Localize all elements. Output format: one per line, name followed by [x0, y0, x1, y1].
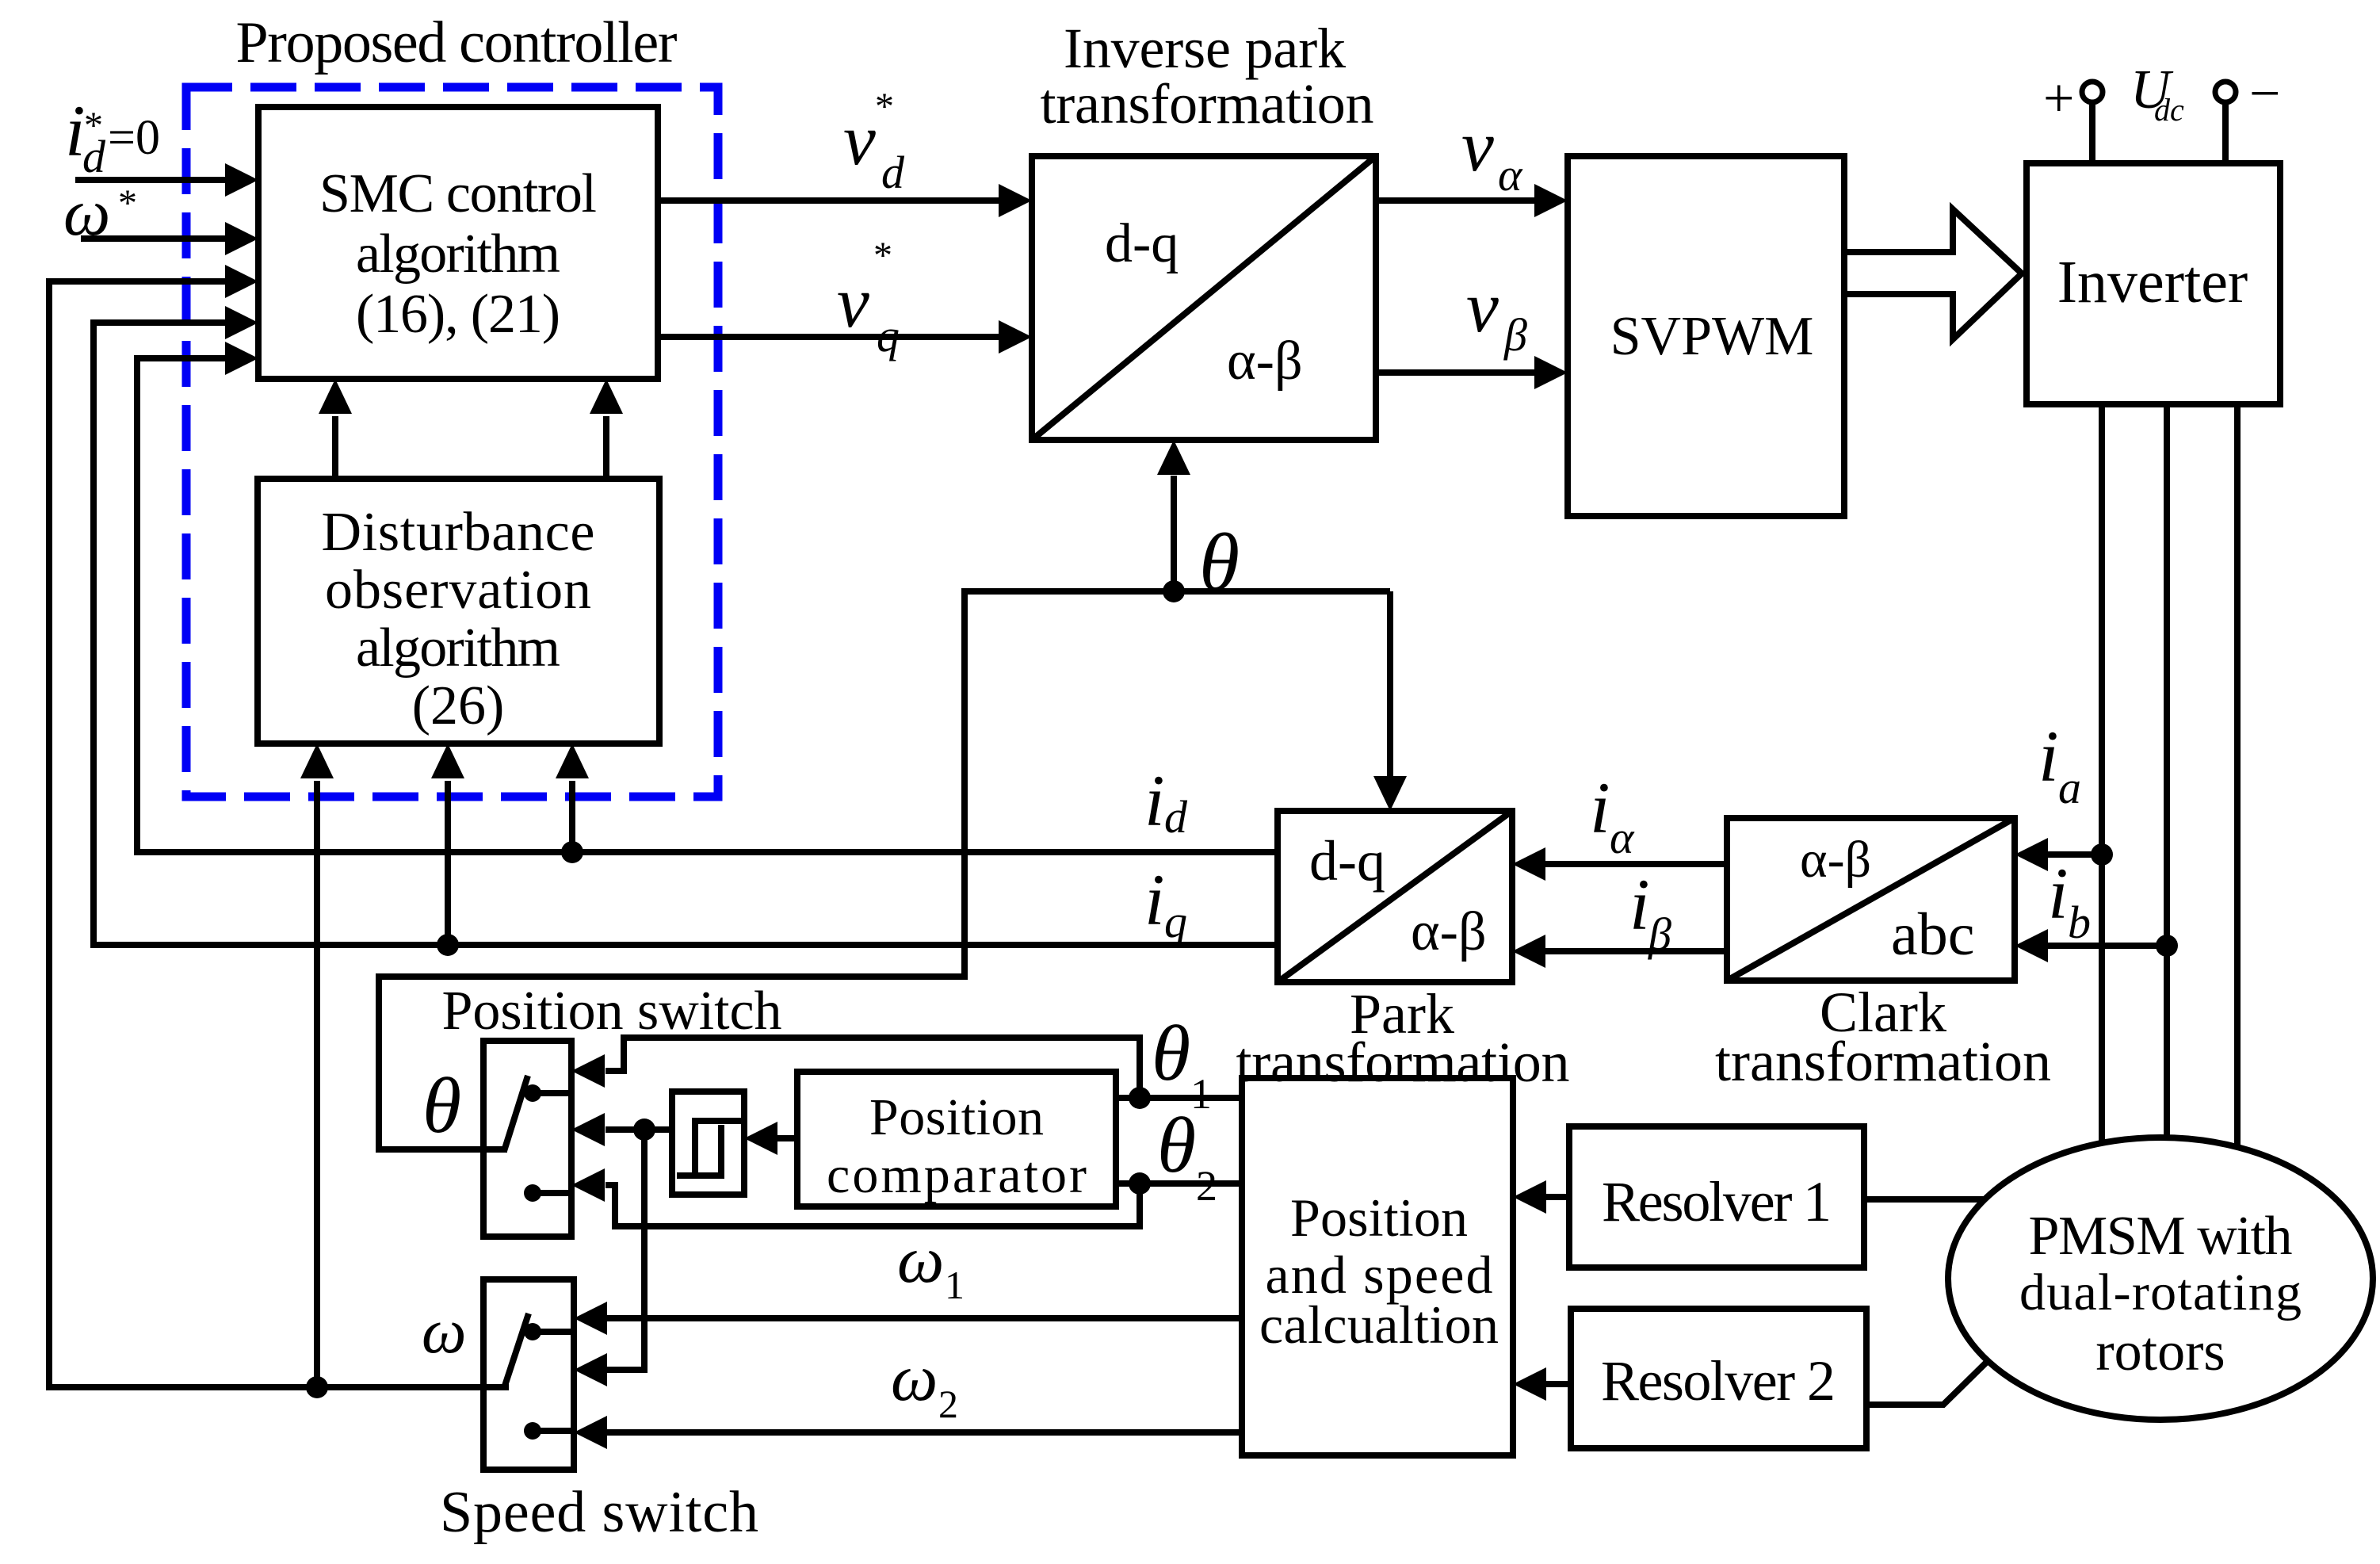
wire: PMSM to resolver1 [1864, 1196, 1985, 1203]
junction: omega feedback to disturbance observer [306, 1376, 328, 1398]
junction: theta to inverse park [1163, 580, 1185, 602]
svg-text:Speed switch: Speed switch [440, 1480, 758, 1545]
wire: omega2 to speed switch bottom input [607, 1429, 1242, 1436]
arrow into Park input 1 [1512, 847, 1545, 881]
svg-text:α-β: α-β [1800, 831, 1871, 889]
junction: theta1 tap [1129, 1087, 1151, 1109]
block U12: Resolver 2 [1571, 1309, 1866, 1448]
block U7: Park transformation d-q to alpha-beta [1278, 811, 1512, 982]
wire: inverter phase a down to motor [2099, 404, 2105, 1143]
svg-text:transformation: transformation [1236, 1031, 1570, 1094]
svg-text:b: b [2068, 897, 2091, 948]
svg-text:Disturbance: Disturbance [322, 502, 595, 563]
wire: vbeta to SVPWM [1376, 369, 1538, 376]
svg-text:d: d [1164, 791, 1188, 843]
svg-text:i: i [1144, 859, 1165, 940]
arrow into SMC input 5 [225, 342, 258, 375]
wire: ib into Clark [2045, 943, 2167, 949]
block M1: PMSM with dual-rotating rotors [1948, 1138, 2373, 1420]
arrow into speed switch bottom [574, 1416, 607, 1449]
arrow into SMC input 4 [225, 306, 258, 339]
arrow into calculation right top [1513, 1180, 1546, 1214]
junction: iq to disturbance observer [437, 934, 459, 956]
arrow into disturbance observer bottom input 2 [431, 744, 464, 778]
svg-text:*: * [84, 105, 103, 147]
svg-text:(26): (26) [412, 675, 505, 736]
svg-text:q: q [1164, 896, 1187, 947]
arrow into Park input 2 [1512, 935, 1545, 968]
svg-text:algorithm: algorithm [356, 224, 560, 285]
svg-text:*: * [118, 182, 137, 224]
wire: omega feedback (speed switch pole to SMC input 3) [49, 281, 509, 1387]
junction: select signal split [633, 1119, 655, 1141]
arrow into SMC bottom left [319, 379, 352, 414]
junction: id to disturbance observer [561, 841, 583, 863]
wire: PMSM to resolver2 [1866, 1360, 1988, 1405]
svg-text:2: 2 [938, 1382, 958, 1426]
arrow into speed switch top [574, 1302, 607, 1335]
arrow into Clark input 2 [2015, 929, 2048, 962]
svg-text:SMC control: SMC control [319, 163, 597, 224]
svg-text:ω: ω [897, 1223, 944, 1297]
svg-text:d-q: d-q [1309, 829, 1385, 893]
svg-text:i: i [1144, 760, 1165, 841]
svg-text:PMSM with: PMSM with [2029, 1206, 2293, 1267]
junction: ib tap [2156, 935, 2178, 957]
svg-text:transformation: transformation [1041, 72, 1374, 136]
arrow into SMC input 2 [225, 222, 258, 255]
svg-text:i: i [2048, 853, 2069, 934]
wire: disturbance observer output 2 to SMC [603, 416, 609, 479]
svg-text:ω: ω [891, 1341, 938, 1415]
arrow into speed switch middle [574, 1353, 607, 1386]
svg-text:ω: ω [422, 1297, 466, 1367]
arrow into calculation right bottom [1513, 1367, 1546, 1401]
svg-text:β: β [1503, 309, 1527, 361]
svg-text:Inverse park: Inverse park [1064, 17, 1346, 80]
block U4: SVPWM [1568, 156, 1844, 516]
arrow into position switch middle [571, 1113, 605, 1146]
wire: - terminal to inverter [2222, 102, 2229, 163]
wire: omega* reference into SMC [81, 235, 228, 242]
block U9: hysteresis element [672, 1092, 744, 1195]
wire: theta distribution (switch pole to inverse park and park) [379, 591, 1390, 1149]
block U8: position comparator [797, 1072, 1116, 1206]
svg-text:i: i [2038, 716, 2059, 797]
svg-text:v: v [1466, 266, 1499, 347]
arrow into inverse park input 2 [999, 320, 1032, 354]
svg-text:d: d [881, 147, 905, 198]
svg-text:v: v [843, 99, 876, 180]
wire: valpha to SVPWM [1376, 197, 1538, 204]
svg-text:Position: Position [1290, 1187, 1468, 1248]
svg-text:+: + [2043, 68, 2074, 129]
terminal circle positive [2082, 82, 2103, 102]
svg-text:d-q: d-q [1105, 213, 1179, 274]
block arrow: SVPWM to Inverter [1844, 209, 2022, 339]
svg-text:comparator: comparator [827, 1146, 1087, 1204]
wire: resolver1 to calculation [1546, 1194, 1569, 1200]
svg-text:Resolver 1: Resolver 1 [1602, 1170, 1832, 1233]
svg-text:*: * [875, 86, 894, 128]
wire: branch up to disturbance observer input 3 [569, 781, 575, 852]
svg-text:θ: θ [1157, 1101, 1196, 1189]
wire: disturbance observer output 1 to SMC [332, 416, 338, 479]
wire: vq* from SMC to inverse park [658, 334, 1002, 340]
wire: iq feedback (Park output to SMC input 4) [94, 323, 1278, 945]
wire: theta1 from calculation to comparator [1116, 1095, 1242, 1101]
block S1: position switch [483, 1041, 571, 1237]
block U5: Inverter [2027, 163, 2280, 404]
wire: id feedback (Park output to SMC input 5) [137, 358, 1278, 852]
wire: select signal down to speed switch [607, 1130, 644, 1370]
arrow into disturbance observer bottom input 1 [300, 744, 334, 778]
arrow into SMC input 3 [225, 265, 258, 298]
wire: theta down into park [1387, 591, 1393, 777]
svg-text:Inverter: Inverter [2057, 249, 2248, 315]
arrow into SMC input 1 [225, 163, 258, 197]
arrow into disturbance observer bottom input 3 [556, 744, 589, 778]
svg-text:observation: observation [325, 560, 591, 621]
arrow into SVPWM input 2 [1534, 356, 1568, 389]
arrow into SMC bottom right [590, 379, 623, 414]
wire: inverter phase c down to motor [2234, 404, 2241, 1148]
svg-text:algorithm: algorithm [356, 618, 560, 679]
block U6: Clark transformation alpha-beta to abc [1727, 818, 2015, 981]
svg-text:rotors: rotors [2095, 1321, 2225, 1382]
arrow into SVPWM input 1 [1534, 184, 1568, 217]
svg-text:SVPWM: SVPWM [1610, 306, 1814, 367]
block U1: SMC control algorithm [258, 107, 658, 379]
svg-text:dc: dc [2154, 92, 2184, 128]
svg-text:θ: θ [422, 1061, 461, 1149]
block U10: position and speed calculation [1242, 1078, 1513, 1455]
wire: theta2 from calculation to comparator [1116, 1180, 1242, 1187]
wire: + terminal to inverter [2089, 102, 2095, 163]
junction: theta2 tap [1129, 1172, 1151, 1195]
block U3: inverse park transformation d-q to alpha-beta [1032, 156, 1376, 440]
svg-text:α-β: α-β [1227, 331, 1303, 392]
wire: branch up to disturbance observer input 2 [445, 781, 451, 945]
block S2: speed switch [483, 1279, 574, 1470]
controller boundary (blue dashed box) [186, 87, 718, 797]
svg-text:abc: abc [1891, 901, 1974, 968]
svg-text:*: * [873, 235, 892, 277]
svg-text:Resolver 2: Resolver 2 [1601, 1349, 1836, 1413]
wire: id* reference into SMC [75, 177, 228, 183]
wire: comparator output to hysteresis [777, 1135, 797, 1141]
svg-text:α-β: α-β [1411, 901, 1487, 962]
terminal circle negative [2215, 82, 2236, 102]
svg-text:calcualtion: calcualtion [1259, 1294, 1499, 1355]
wire: theta up into inverse park [1171, 476, 1177, 591]
arrow into park top [1373, 776, 1407, 811]
arrow into inverse park bottom [1157, 440, 1190, 475]
svg-text:a: a [2058, 762, 2081, 813]
wire: ibeta Clark to Park [1545, 948, 1727, 954]
svg-text:Position switch: Position switch [442, 981, 782, 1042]
lower contact dot [524, 1422, 541, 1440]
pole contact dot [524, 1323, 541, 1340]
arrow into position switch bottom [571, 1168, 605, 1202]
svg-text:Position: Position [869, 1088, 1044, 1146]
svg-text:1: 1 [945, 1263, 965, 1307]
block U2: Disturbance observation algorithm [258, 479, 659, 744]
wire: vd* from SMC to inverse park [658, 197, 1002, 204]
svg-text:(16), (21): (16), (21) [356, 284, 560, 345]
svg-text:i: i [1590, 767, 1610, 848]
pole contact dot [524, 1084, 541, 1102]
junction: ia tap [2091, 843, 2113, 866]
block U11: Resolver 1 [1569, 1126, 1864, 1268]
wire: ia into Clark [2045, 851, 2102, 858]
svg-text:dual-rotating: dual-rotating [2019, 1264, 2302, 1321]
svg-text:=0: =0 [108, 111, 160, 165]
wire: theta2 to position switch bottom input [606, 1184, 1140, 1226]
wire: inverter phase b down to motor [2164, 404, 2170, 1138]
svg-text:α: α [1610, 812, 1635, 863]
svg-text:Proposed controller: Proposed controller [236, 10, 678, 75]
svg-text:θ: θ [1152, 1009, 1190, 1097]
svg-text:−: − [2249, 63, 2280, 124]
wire: omega1 to speed switch top input [607, 1315, 1242, 1321]
switch lever [505, 1314, 529, 1386]
wire: resolver2 to calculation [1546, 1381, 1571, 1387]
lower contact dot [524, 1184, 541, 1202]
svg-text:v: v [837, 262, 869, 342]
arrow into Clark input 1 [2015, 838, 2048, 871]
arrow into inverse park input 1 [999, 184, 1032, 217]
wire: hysteresis output to position switch select [606, 1126, 672, 1133]
arrow into position switch top [571, 1054, 605, 1088]
svg-text:i: i [1629, 864, 1650, 945]
wire: branch up to disturbance observer input 1 [314, 781, 320, 1387]
switch lever [504, 1076, 528, 1151]
wire: ialpha Clark to Park [1545, 861, 1727, 867]
svg-text:α: α [1498, 149, 1523, 201]
wire: theta1 to position switch top input [606, 1038, 1140, 1098]
svg-text:transformation: transformation [1715, 1030, 2051, 1093]
arrow into hysteresis [744, 1122, 777, 1155]
svg-text:v: v [1461, 105, 1494, 186]
